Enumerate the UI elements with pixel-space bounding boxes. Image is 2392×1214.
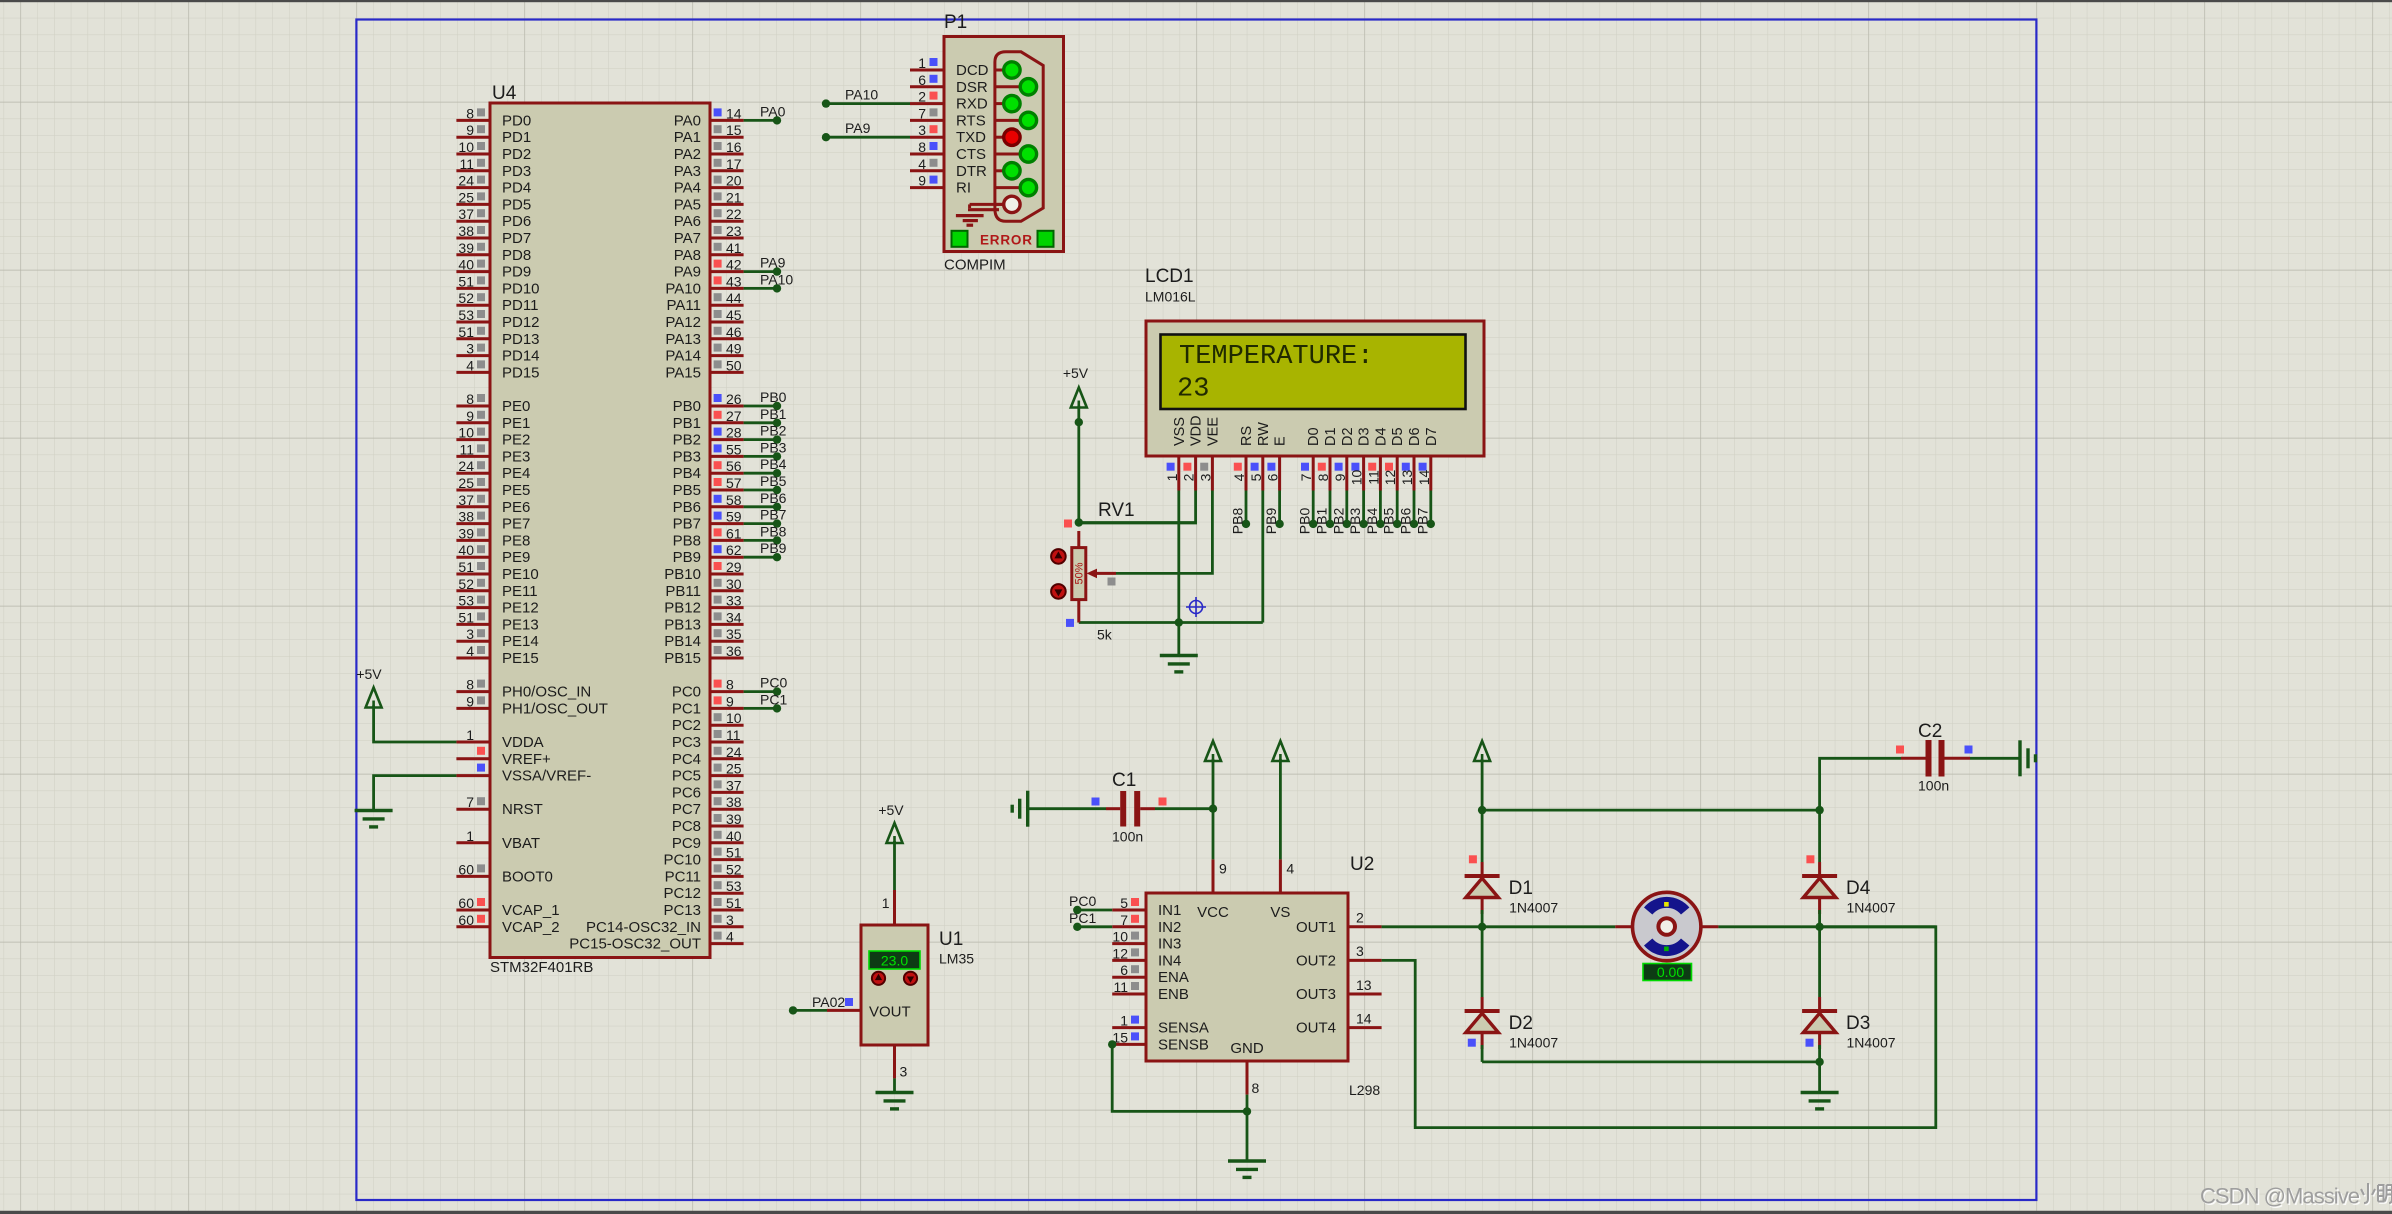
svg-text:62: 62 bbox=[726, 542, 742, 558]
svg-text:D6: D6 bbox=[1407, 427, 1423, 446]
svg-text:9: 9 bbox=[918, 173, 926, 189]
pin PD12 (U4) bbox=[456, 321, 490, 324]
svg-text:3: 3 bbox=[466, 626, 474, 642]
motor bottom dot bbox=[1664, 947, 1669, 952]
svg-text:38: 38 bbox=[458, 509, 474, 525]
power +5V symbol (U1) bbox=[887, 823, 903, 843]
pin TXD (P1) bbox=[910, 136, 944, 139]
svg-text:1: 1 bbox=[466, 727, 474, 743]
svg-text:PC7: PC7 bbox=[672, 801, 701, 818]
svg-text:U1: U1 bbox=[939, 929, 963, 950]
pin RS (LCD1) bbox=[1245, 456, 1248, 491]
svg-text:2: 2 bbox=[918, 89, 926, 105]
pin PE5 (U4) bbox=[456, 489, 490, 492]
pin OUT1 (U2) bbox=[1348, 925, 1382, 928]
svg-text:D5: D5 bbox=[1390, 427, 1406, 446]
pin PA6 (U4) bbox=[710, 220, 744, 223]
svg-text:27: 27 bbox=[726, 408, 742, 424]
wire net PB1 stub (U4) bbox=[744, 421, 777, 424]
svg-text:PB6: PB6 bbox=[1398, 508, 1414, 535]
potentiometer RV1 wiper bbox=[1090, 572, 1116, 575]
pin OUT2 (U2) bbox=[1348, 959, 1382, 962]
svg-text:VS: VS bbox=[1270, 904, 1290, 921]
svg-text:39: 39 bbox=[458, 525, 474, 541]
svg-text:PE6: PE6 bbox=[502, 499, 530, 516]
bottom window strip bbox=[0, 1211, 2392, 1214]
svg-text:D3: D3 bbox=[1846, 1013, 1870, 1034]
diode D1 bbox=[1465, 874, 1500, 878]
svg-text:STM32F401RB: STM32F401RB bbox=[490, 959, 593, 976]
pin PA4 (U4) bbox=[710, 186, 744, 189]
svg-text:PE2: PE2 bbox=[502, 432, 530, 449]
svg-text:45: 45 bbox=[726, 307, 742, 323]
svg-text:PB2: PB2 bbox=[1330, 508, 1346, 535]
svg-text:1N4007: 1N4007 bbox=[1847, 900, 1896, 916]
svg-text:57: 57 bbox=[726, 475, 742, 491]
svg-text:9: 9 bbox=[1332, 473, 1348, 481]
pin PA14 (U4) bbox=[710, 354, 744, 357]
wire RW to ground rail bbox=[1261, 491, 1264, 623]
svg-text:RV1: RV1 bbox=[1098, 500, 1135, 521]
svg-text:PC6: PC6 bbox=[672, 784, 701, 801]
wire D3 bottom bbox=[1818, 1045, 1821, 1062]
svg-text:PD12: PD12 bbox=[502, 314, 540, 331]
svg-text:PC2: PC2 bbox=[672, 717, 701, 734]
pin PD4 (U4) bbox=[456, 186, 490, 189]
wire VDD to +5V rail bbox=[1079, 491, 1196, 524]
svg-text:PB10: PB10 bbox=[664, 566, 701, 583]
P1 LED bbox=[1020, 146, 1036, 162]
svg-text:RTS: RTS bbox=[956, 112, 986, 129]
motor left pin bbox=[1615, 925, 1633, 928]
C2 state square left bbox=[1896, 746, 1904, 754]
svg-text:16: 16 bbox=[726, 139, 742, 155]
svg-text:PA02: PA02 bbox=[812, 994, 845, 1010]
svg-text:51: 51 bbox=[458, 324, 474, 340]
pin PA9 (U4) bbox=[710, 270, 744, 273]
diode D1 cathode wire bbox=[1481, 862, 1484, 876]
svg-text:PB3: PB3 bbox=[673, 448, 701, 465]
pin D7 (LCD1) bbox=[1429, 456, 1432, 491]
svg-text:LM016L: LM016L bbox=[1145, 289, 1196, 305]
pin PA0 (U4) bbox=[710, 119, 744, 122]
P1 status square left bbox=[952, 231, 968, 247]
svg-text:5k: 5k bbox=[1097, 627, 1113, 643]
RV1 up button bbox=[1051, 549, 1066, 564]
pin PD14 (U4) bbox=[456, 354, 490, 357]
pin D1 (LCD1) bbox=[1329, 456, 1332, 491]
svg-text:55: 55 bbox=[726, 441, 742, 457]
P1 LED bbox=[1020, 79, 1036, 95]
wire net PA9 stub (P1 TXD) bbox=[826, 136, 910, 139]
svg-text:PB8: PB8 bbox=[1230, 508, 1246, 535]
svg-text:PB7: PB7 bbox=[1414, 508, 1430, 535]
svg-text:C1: C1 bbox=[1112, 770, 1136, 791]
pin PB12 (U4) bbox=[710, 606, 744, 609]
svg-text:PE11: PE11 bbox=[502, 583, 538, 600]
pin PE14 (U4) bbox=[456, 640, 490, 643]
pin DSR (P1) bbox=[910, 85, 944, 88]
svg-text:PB3: PB3 bbox=[1347, 508, 1363, 535]
svg-text:14: 14 bbox=[1416, 470, 1432, 486]
svg-text:RS: RS bbox=[1239, 426, 1255, 446]
svg-text:40: 40 bbox=[726, 828, 742, 844]
ground (VSSA) bbox=[355, 809, 393, 812]
wire net PB3 stub (U4) bbox=[744, 455, 777, 458]
capacitor C1 ground bbox=[1026, 791, 1029, 827]
U1 up button bbox=[872, 972, 885, 985]
pin PH1/OSC_OUT (U4) bbox=[456, 707, 490, 710]
svg-text:24: 24 bbox=[458, 458, 474, 474]
wire net PB4 stub (U4) bbox=[744, 472, 777, 475]
wire D1 bottom bbox=[1481, 910, 1484, 927]
motor shaft bbox=[1658, 918, 1675, 935]
connector P1 body bbox=[944, 37, 1064, 252]
pin PD0 (U4) bbox=[456, 119, 490, 122]
svg-text:TXD: TXD bbox=[956, 129, 986, 146]
svg-text:PB1: PB1 bbox=[760, 406, 787, 422]
diode D3 anode wire bbox=[1818, 1033, 1821, 1050]
svg-text:PC15-OSC32_OUT: PC15-OSC32_OUT bbox=[569, 936, 701, 953]
svg-text:39: 39 bbox=[726, 811, 742, 827]
wire D4 bottom bbox=[1818, 910, 1821, 927]
svg-text:PB9: PB9 bbox=[760, 540, 787, 556]
svg-text:PD4: PD4 bbox=[502, 180, 531, 197]
pin PC0 (U4) bbox=[710, 690, 744, 693]
svg-text:53: 53 bbox=[726, 878, 742, 894]
svg-text:1: 1 bbox=[918, 55, 926, 71]
svg-text:4: 4 bbox=[1231, 473, 1247, 481]
pin PB8 (U4) bbox=[710, 539, 744, 542]
junction bbox=[1478, 923, 1486, 931]
svg-text:PA4: PA4 bbox=[674, 180, 701, 197]
P1 LED bbox=[1004, 62, 1020, 78]
wire right column to C2 bbox=[1820, 758, 1901, 810]
svg-text:6: 6 bbox=[1265, 473, 1281, 481]
svg-text:PA10: PA10 bbox=[760, 271, 793, 287]
svg-text:42: 42 bbox=[726, 257, 742, 273]
svg-text:COMPIM: COMPIM bbox=[944, 257, 1006, 274]
diode D2 anode wire bbox=[1481, 1033, 1484, 1050]
pin SENSA (U2) bbox=[1112, 1026, 1146, 1029]
svg-text:D1: D1 bbox=[1509, 878, 1533, 899]
sensor U1 body bbox=[861, 925, 928, 1045]
pin PC9 (U4) bbox=[710, 841, 744, 844]
diode D2 state square bbox=[1468, 1039, 1476, 1047]
svg-text:3: 3 bbox=[1197, 473, 1213, 481]
pin PB3 (U4) bbox=[710, 455, 744, 458]
svg-text:PA8: PA8 bbox=[674, 247, 701, 264]
svg-text:PA2: PA2 bbox=[674, 146, 701, 163]
svg-text:PB7: PB7 bbox=[673, 516, 701, 533]
pin IN4 (U2) bbox=[1112, 959, 1146, 962]
wire OUT1 to motor bbox=[1382, 925, 1616, 928]
pin 3 (U1) bbox=[893, 1045, 896, 1078]
svg-text:10: 10 bbox=[458, 425, 474, 441]
svg-text:25: 25 bbox=[458, 475, 474, 491]
wire net PB7 stub (U4) bbox=[744, 522, 777, 525]
svg-text:PA9: PA9 bbox=[674, 264, 701, 281]
svg-text:VCAP_2: VCAP_2 bbox=[502, 919, 560, 936]
pin PE9 (U4) bbox=[456, 556, 490, 559]
svg-text:D2: D2 bbox=[1509, 1013, 1533, 1034]
svg-text:35: 35 bbox=[726, 626, 742, 642]
svg-text:PB4: PB4 bbox=[760, 456, 787, 472]
junction bbox=[1075, 418, 1083, 426]
wire D1 top bbox=[1481, 810, 1484, 862]
svg-text:ENA: ENA bbox=[1158, 969, 1189, 986]
svg-text:13: 13 bbox=[1399, 470, 1415, 486]
wire net PB5 stub (U4) bbox=[744, 489, 777, 492]
wire OUT2 loop bbox=[1382, 927, 1936, 1128]
svg-text:PD11: PD11 bbox=[502, 297, 538, 314]
svg-text:38: 38 bbox=[458, 223, 474, 239]
wire D4 net PB4 bbox=[1379, 491, 1382, 524]
wire ground stem (bridge) bbox=[1818, 1062, 1821, 1092]
wire net PA9 stub (U4) bbox=[744, 270, 777, 273]
svg-text:50%: 50% bbox=[1074, 562, 1086, 584]
diode D2 cathode wire bbox=[1481, 997, 1484, 1011]
svg-text:37: 37 bbox=[458, 206, 474, 222]
junction bbox=[1815, 1058, 1823, 1066]
power +5V symbol (VDDA) bbox=[366, 688, 382, 708]
junction bbox=[1243, 1107, 1251, 1115]
P1 LED link line bbox=[995, 102, 1004, 105]
svg-text:40: 40 bbox=[458, 542, 474, 558]
pin PE13 (U4) bbox=[456, 623, 490, 626]
svg-text:PC9: PC9 bbox=[672, 835, 701, 852]
svg-text:PE10: PE10 bbox=[502, 566, 539, 583]
svg-text:OUT4: OUT4 bbox=[1296, 1020, 1336, 1037]
svg-text:39: 39 bbox=[458, 240, 474, 256]
svg-text:4: 4 bbox=[726, 929, 734, 945]
wire VSS to ground rail bbox=[1177, 491, 1180, 623]
svg-text:PD1: PD1 bbox=[502, 129, 531, 146]
svg-text:8: 8 bbox=[1315, 473, 1331, 481]
pin PE3 (U4) bbox=[456, 455, 490, 458]
svg-text:PC13: PC13 bbox=[663, 902, 701, 919]
svg-text:D1: D1 bbox=[1323, 427, 1339, 446]
svg-text:TEMPERATURE:: TEMPERATURE: bbox=[1179, 342, 1373, 372]
pin VSS (LCD1) bbox=[1177, 456, 1180, 491]
pin PC6 (U4) bbox=[710, 791, 744, 794]
power +5V symbol (LCD) bbox=[1071, 388, 1087, 408]
svg-text:52: 52 bbox=[458, 290, 474, 306]
pin D2 (LCD1) bbox=[1345, 456, 1348, 491]
svg-text:D0: D0 bbox=[1306, 427, 1322, 446]
svg-text:49: 49 bbox=[726, 341, 742, 357]
svg-text:PD0: PD0 bbox=[502, 112, 531, 129]
pin VDDA (U4) bbox=[456, 741, 490, 744]
wire net PB6 stub (U4) bbox=[744, 505, 777, 508]
pin PD10 (U4) bbox=[456, 287, 490, 290]
pin PB9 (U4) bbox=[710, 556, 744, 559]
svg-text:PB0: PB0 bbox=[673, 398, 701, 415]
junction bbox=[1478, 806, 1486, 814]
svg-text:3: 3 bbox=[466, 341, 474, 357]
svg-text:PA7: PA7 bbox=[674, 230, 701, 247]
svg-text:PB9: PB9 bbox=[673, 549, 701, 566]
wire net PC0 stub (U2 IN1) bbox=[1077, 909, 1112, 912]
svg-text:IN1: IN1 bbox=[1158, 902, 1181, 919]
svg-text:PC8: PC8 bbox=[672, 818, 701, 835]
pin PD1 (U4) bbox=[456, 136, 490, 139]
motor commutator top arc bbox=[1648, 902, 1685, 911]
svg-text:DCD: DCD bbox=[956, 62, 989, 79]
wire VEE to RV1 wiper bbox=[1116, 491, 1212, 574]
wire D6 net PB6 bbox=[1413, 491, 1416, 524]
power +5V symbol (U2 VCC) bbox=[1205, 741, 1221, 761]
svg-text:30: 30 bbox=[726, 576, 742, 592]
svg-text:SENSA: SENSA bbox=[1158, 1020, 1209, 1037]
svg-text:PA10: PA10 bbox=[845, 87, 878, 103]
pin VCAP_2 (U4) bbox=[456, 925, 490, 928]
pin VDD (LCD1) bbox=[1194, 456, 1197, 491]
pin PC15-OSC32_OUT (U4) bbox=[710, 942, 744, 945]
svg-text:PB2: PB2 bbox=[673, 432, 701, 449]
pin RTS (P1) bbox=[910, 119, 944, 122]
pin PE11 (U4) bbox=[456, 589, 490, 592]
pin PB14 (U4) bbox=[710, 640, 744, 643]
svg-text:+5V: +5V bbox=[356, 666, 382, 682]
svg-text:RI: RI bbox=[956, 180, 971, 197]
P1 LED link line bbox=[995, 119, 1020, 122]
wire net PC0 stub (U4) bbox=[744, 690, 777, 693]
junction bbox=[1075, 518, 1083, 526]
wire net PA02 stub (U1) bbox=[793, 1009, 827, 1012]
wire D0 net PB0 bbox=[1312, 491, 1315, 524]
svg-text:1: 1 bbox=[466, 828, 474, 844]
pin D6 (LCD1) bbox=[1413, 456, 1416, 491]
svg-text:PB0: PB0 bbox=[1297, 508, 1313, 535]
svg-text:PB14: PB14 bbox=[664, 633, 701, 650]
wire D3 net PB3 bbox=[1362, 491, 1365, 524]
pin PE1 (U4) bbox=[456, 421, 490, 424]
diode D3 bbox=[1802, 1009, 1837, 1013]
diode D4 bbox=[1802, 874, 1837, 878]
svg-text:SENSB: SENSB bbox=[1158, 1036, 1209, 1053]
svg-text:24: 24 bbox=[458, 173, 474, 189]
P1 status square right bbox=[1038, 231, 1054, 247]
U1 display 23.0 bbox=[869, 951, 920, 969]
svg-text:PD3: PD3 bbox=[502, 163, 531, 180]
wire +5V to top rail bbox=[1481, 759, 1484, 810]
svg-text:53: 53 bbox=[458, 593, 474, 609]
svg-text:8: 8 bbox=[466, 391, 474, 407]
svg-text:4: 4 bbox=[918, 156, 926, 172]
svg-text:PC3: PC3 bbox=[672, 734, 701, 751]
no-connect marker bbox=[1186, 597, 1206, 617]
svg-text:60: 60 bbox=[458, 861, 474, 877]
svg-text:PA9: PA9 bbox=[845, 120, 871, 136]
svg-text:PC4: PC4 bbox=[672, 751, 701, 768]
svg-text:10: 10 bbox=[726, 710, 742, 726]
svg-text:51: 51 bbox=[458, 273, 474, 289]
svg-text:PA11: PA11 bbox=[667, 297, 701, 314]
pin PD8 (U4) bbox=[456, 253, 490, 256]
svg-text:61: 61 bbox=[726, 525, 742, 541]
svg-text:60: 60 bbox=[458, 895, 474, 911]
motor speed display 0.00 bbox=[1643, 964, 1692, 981]
pin PC2 (U4) bbox=[710, 724, 744, 727]
pin PE6 (U4) bbox=[456, 505, 490, 508]
svg-text:PE7: PE7 bbox=[502, 516, 530, 533]
pin D3 (LCD1) bbox=[1362, 456, 1365, 491]
pin IN1 (U2) bbox=[1112, 909, 1146, 912]
svg-text:13: 13 bbox=[1356, 977, 1372, 993]
svg-text:PB0: PB0 bbox=[760, 389, 787, 405]
pin OUT3 (U2) bbox=[1348, 993, 1382, 996]
pin PC7 (U4) bbox=[710, 808, 744, 811]
svg-text:46: 46 bbox=[726, 324, 742, 340]
pin PD6 (U4) bbox=[456, 220, 490, 223]
svg-text:RW: RW bbox=[1256, 422, 1272, 446]
pin PE7 (U4) bbox=[456, 522, 490, 525]
svg-text:17: 17 bbox=[726, 156, 742, 172]
svg-text:PC14-OSC32_IN: PC14-OSC32_IN bbox=[586, 919, 701, 936]
svg-text:58: 58 bbox=[726, 492, 742, 508]
pin RXD (P1) bbox=[910, 102, 944, 105]
svg-text:7: 7 bbox=[1298, 473, 1314, 481]
pin PA10 (U4) bbox=[710, 287, 744, 290]
pin DTR (P1) bbox=[910, 169, 944, 172]
lcd LCD1 screen bbox=[1161, 335, 1466, 410]
pin PA12 (U4) bbox=[710, 321, 744, 324]
power +5V symbol (bridge) bbox=[1474, 741, 1490, 761]
svg-text:100n: 100n bbox=[1918, 778, 1949, 794]
diode D1 state square bbox=[1469, 855, 1477, 863]
svg-text:PC0: PC0 bbox=[760, 675, 787, 691]
wire C1 left bbox=[1028, 807, 1106, 810]
svg-text:PE13: PE13 bbox=[502, 616, 539, 633]
svg-text:PA15: PA15 bbox=[665, 364, 701, 381]
junction bbox=[1815, 923, 1823, 931]
wire D1 net PB1 bbox=[1329, 491, 1332, 524]
svg-text:PC0: PC0 bbox=[672, 684, 701, 701]
diode D1 anode wire bbox=[1481, 898, 1484, 915]
svg-text:33: 33 bbox=[726, 593, 742, 609]
svg-text:53: 53 bbox=[458, 307, 474, 323]
svg-text:23: 23 bbox=[726, 223, 742, 239]
svg-text:1N4007: 1N4007 bbox=[1847, 1035, 1896, 1051]
svg-text:PA10: PA10 bbox=[665, 280, 701, 297]
svg-text:37: 37 bbox=[726, 777, 742, 793]
pin PD7 (U4) bbox=[456, 237, 490, 240]
svg-text:PB6: PB6 bbox=[760, 490, 787, 506]
ground (LCD) bbox=[1160, 654, 1198, 657]
ground (bridge) bbox=[1801, 1091, 1839, 1094]
svg-text:DTR: DTR bbox=[956, 163, 987, 180]
pin NRST (U4) bbox=[456, 808, 490, 811]
wire LCD ground rail bbox=[1079, 621, 1263, 624]
svg-text:PC0: PC0 bbox=[1069, 893, 1096, 909]
svg-text:PA1: PA1 bbox=[674, 129, 701, 146]
svg-text:43: 43 bbox=[726, 273, 742, 289]
svg-text:36: 36 bbox=[726, 643, 742, 659]
C1 state square right bbox=[1159, 798, 1167, 806]
svg-text:6: 6 bbox=[918, 72, 926, 88]
svg-text:PB15: PB15 bbox=[664, 650, 701, 667]
svg-text:1: 1 bbox=[1164, 473, 1180, 481]
svg-text:PC1: PC1 bbox=[672, 700, 701, 717]
svg-text:50: 50 bbox=[726, 357, 742, 373]
junction bbox=[1175, 618, 1183, 626]
svg-text:L298: L298 bbox=[1349, 1082, 1380, 1098]
svg-text:IN2: IN2 bbox=[1158, 919, 1181, 936]
svg-text:PC11: PC11 bbox=[665, 868, 701, 885]
svg-text:PD10: PD10 bbox=[502, 280, 540, 297]
pin PB7 (U4) bbox=[710, 522, 744, 525]
